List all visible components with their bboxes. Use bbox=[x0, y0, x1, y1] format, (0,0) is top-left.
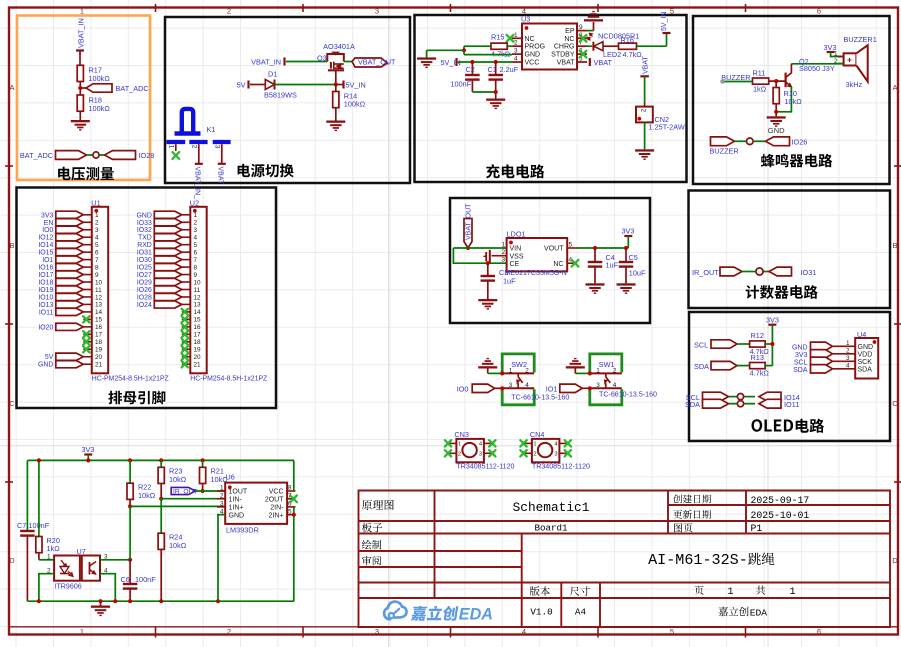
svg-text:BUZZER: BUZZER bbox=[710, 147, 739, 156]
svg-text:18: 18 bbox=[95, 339, 103, 346]
svg-text:4: 4 bbox=[525, 382, 529, 389]
svg-text:3: 3 bbox=[213, 145, 220, 149]
wire down to pin3 node bbox=[129, 506, 131, 559]
wire bbox=[79, 51, 81, 66]
svg-text:13: 13 bbox=[95, 302, 103, 309]
svg-text:SCL: SCL bbox=[694, 341, 708, 350]
svg-text:GND: GND bbox=[858, 344, 874, 351]
switch SW1 TC-6610 bbox=[590, 354, 622, 373]
svg-text:TC-6610-13.5-160: TC-6610-13.5-160 bbox=[599, 391, 657, 399]
net label 5V_IN (vertical) bbox=[663, 32, 671, 34]
wire bbox=[275, 84, 336, 86]
svg-text:3: 3 bbox=[375, 627, 379, 636]
svg-text:GND: GND bbox=[768, 126, 785, 135]
svg-text:TXD: TXD bbox=[138, 235, 152, 242]
port SCL bbox=[811, 357, 833, 365]
wire bbox=[644, 122, 646, 149]
no-connect X pin1 bbox=[507, 35, 514, 42]
svg-text:IO14: IO14 bbox=[38, 242, 53, 249]
wire R20 branch bbox=[38, 460, 40, 536]
U2 pin 7 bbox=[182, 259, 191, 261]
svg-text:9: 9 bbox=[579, 24, 583, 31]
svg-text:2: 2 bbox=[227, 627, 231, 636]
svg-text:U3: U3 bbox=[521, 15, 530, 24]
svg-text:VCC: VCC bbox=[269, 489, 284, 496]
svg-text:IO19: IO19 bbox=[38, 287, 53, 294]
svg-text:IO13: IO13 bbox=[38, 302, 53, 309]
wire 1IN+ row bbox=[130, 505, 225, 507]
ground bbox=[586, 283, 605, 285]
svg-text:GND: GND bbox=[38, 362, 53, 369]
svg-text:IO31: IO31 bbox=[801, 268, 817, 277]
svg-text:IO26: IO26 bbox=[792, 137, 808, 146]
wire top rail bbox=[27, 459, 294, 461]
title: charging circuit bbox=[486, 164, 544, 178]
wire 3V3 riser bbox=[771, 325, 773, 366]
svg-text:IO10: IO10 bbox=[38, 294, 53, 301]
svg-text:IO1: IO1 bbox=[42, 257, 53, 264]
svg-text:100kΩ: 100kΩ bbox=[344, 100, 366, 109]
node BAT_ADC junction bbox=[78, 86, 82, 90]
svg-text:2025-09-17: 2025-09-17 bbox=[751, 495, 810, 506]
wire GND pin bbox=[218, 515, 225, 602]
svg-text:1: 1 bbox=[95, 212, 99, 219]
node bbox=[588, 386, 592, 390]
svg-text:5: 5 bbox=[670, 627, 674, 636]
U1 pin 20 bbox=[83, 356, 92, 358]
svg-text:4: 4 bbox=[194, 235, 198, 242]
U2 pin 9 bbox=[182, 274, 191, 276]
port GND bbox=[811, 342, 833, 350]
ground above EP bbox=[587, 30, 594, 32]
port IO1 bbox=[56, 256, 84, 263]
svg-text:RXD: RXD bbox=[137, 242, 152, 249]
port IO19 bbox=[56, 286, 84, 293]
U2 pin 4 bbox=[182, 236, 191, 238]
svg-text:6: 6 bbox=[95, 249, 99, 256]
svg-text:16: 16 bbox=[194, 324, 202, 331]
svg-text:SDA: SDA bbox=[685, 400, 700, 409]
svg-text:C: C bbox=[892, 399, 898, 408]
svg-text:4: 4 bbox=[95, 235, 99, 242]
U1 pin 14 bbox=[83, 311, 92, 313]
svg-text:2: 2 bbox=[458, 451, 461, 457]
svg-text:C: C bbox=[9, 399, 15, 408]
node bbox=[500, 371, 504, 375]
svg-text:IO15: IO15 bbox=[38, 250, 53, 257]
node bbox=[486, 261, 490, 265]
svg-text:IO33: IO33 bbox=[137, 220, 152, 227]
svg-text:GND: GND bbox=[792, 345, 808, 352]
svg-text:SDA: SDA bbox=[793, 367, 808, 374]
svg-text:VDD: VDD bbox=[858, 351, 873, 358]
svg-text:1: 1 bbox=[846, 340, 850, 347]
U1 pin 19 bbox=[83, 348, 92, 350]
port SDA bbox=[811, 365, 833, 373]
svg-text:IO28: IO28 bbox=[139, 151, 155, 160]
no-connect X bbox=[445, 440, 451, 446]
no-connect X bbox=[182, 324, 188, 330]
svg-text:SCL: SCL bbox=[794, 360, 808, 367]
svg-text:IO20: IO20 bbox=[38, 324, 53, 331]
svg-text:VBAT_OUT: VBAT_OUT bbox=[466, 203, 473, 240]
title: counter circuit bbox=[746, 285, 818, 299]
wire left rail bbox=[26, 460, 28, 530]
port IO31 bbox=[154, 249, 182, 256]
svg-text:2: 2 bbox=[533, 451, 536, 457]
svg-text:EDA: EDA bbox=[750, 608, 768, 619]
port IO12 bbox=[56, 234, 84, 241]
port IO11 bbox=[56, 308, 84, 315]
node bbox=[159, 497, 163, 501]
ground bbox=[100, 601, 102, 605]
U1 pin 7 bbox=[83, 259, 92, 261]
title: OLED circuit bbox=[752, 419, 794, 431]
svg-text:3: 3 bbox=[194, 227, 198, 234]
svg-text:VBAT: VBAT bbox=[594, 58, 613, 67]
port IO26 bbox=[154, 286, 182, 293]
svg-text:3: 3 bbox=[375, 7, 379, 16]
svg-text:3V3: 3V3 bbox=[622, 227, 635, 236]
wire to 5V_IN riser bbox=[637, 45, 667, 47]
section box: header pins bbox=[17, 188, 277, 409]
svg-text:8: 8 bbox=[95, 264, 99, 271]
svg-text:B: B bbox=[9, 241, 14, 250]
resistor R18 bbox=[77, 95, 83, 111]
buzzer pins bbox=[839, 56, 844, 58]
svg-text:IO18: IO18 bbox=[38, 280, 53, 287]
node bbox=[588, 371, 592, 375]
svg-text:GND: GND bbox=[525, 52, 541, 59]
svg-text:VSS: VSS bbox=[510, 253, 524, 260]
wire VOUT bbox=[577, 247, 628, 249]
node bbox=[216, 599, 220, 603]
svg-text:B5819WS: B5819WS bbox=[264, 91, 297, 100]
svg-text:20: 20 bbox=[95, 354, 103, 361]
no-connect X bbox=[182, 354, 188, 360]
U2 pin 17 bbox=[182, 333, 191, 335]
svg-text:17: 17 bbox=[95, 332, 103, 339]
port 3V3 bbox=[56, 211, 84, 218]
svg-text:10kΩ: 10kΩ bbox=[138, 491, 156, 500]
svg-text:100nF: 100nF bbox=[135, 575, 156, 584]
port IO16 bbox=[56, 263, 84, 270]
wire collector to pin2 bbox=[791, 63, 843, 65]
svg-text:VBAT: VBAT bbox=[643, 56, 650, 74]
port BAT_ADC bbox=[80, 87, 86, 89]
svg-text:1: 1 bbox=[458, 441, 461, 447]
U1 pin 18 bbox=[83, 341, 92, 343]
svg-text:CN4: CN4 bbox=[530, 430, 545, 439]
svg-text:IR_OUT: IR_OUT bbox=[173, 489, 198, 496]
svg-text:VBAT: VBAT bbox=[557, 60, 575, 67]
svg-text:5: 5 bbox=[288, 508, 292, 515]
no-connect X bbox=[182, 339, 188, 345]
svg-text:4: 4 bbox=[514, 56, 518, 63]
svg-text:1: 1 bbox=[514, 32, 518, 39]
svg-text:R11: R11 bbox=[753, 69, 766, 78]
svg-text:3V3: 3V3 bbox=[41, 212, 53, 219]
svg-text:2IN-: 2IN- bbox=[270, 504, 284, 511]
svg-text:1IN-: 1IN- bbox=[229, 496, 243, 503]
no-connect X NC right bbox=[580, 35, 587, 42]
svg-text:1: 1 bbox=[789, 587, 795, 598]
svg-text:3: 3 bbox=[220, 501, 224, 508]
wire 3V3 stem bbox=[87, 455, 89, 461]
section box: buzzer bbox=[693, 16, 890, 184]
no-connect X bbox=[520, 440, 526, 446]
svg-text:IR_OUT: IR_OUT bbox=[692, 268, 719, 277]
wire VIN rail bbox=[453, 247, 506, 249]
U2 pin 1 bbox=[182, 214, 191, 216]
U2 pin 16 bbox=[182, 326, 191, 328]
U2 pin 5 bbox=[182, 244, 191, 246]
svg-text:C2: C2 bbox=[466, 65, 475, 74]
U2 pin 19 bbox=[182, 348, 191, 350]
ground bbox=[635, 149, 654, 151]
node bbox=[128, 558, 132, 562]
wire GND pin bbox=[463, 50, 465, 54]
port EN bbox=[56, 219, 84, 226]
svg-text:3: 3 bbox=[596, 382, 600, 389]
port IO0 bbox=[56, 226, 84, 233]
node junction bbox=[462, 48, 466, 52]
U1 pin 13 bbox=[83, 303, 92, 305]
svg-text:3V3: 3V3 bbox=[766, 316, 779, 325]
svg-text:10uF: 10uF bbox=[629, 269, 646, 278]
svg-text:IO32: IO32 bbox=[137, 227, 152, 234]
svg-text:3: 3 bbox=[846, 355, 850, 362]
ground bbox=[478, 366, 497, 368]
wire bbox=[79, 111, 81, 120]
svg-text:CE: CE bbox=[510, 261, 520, 268]
svg-text:1: 1 bbox=[501, 242, 505, 249]
svg-text:19: 19 bbox=[194, 347, 202, 354]
switch K1 (blue) bbox=[167, 109, 231, 142]
no-connect X 2OUT bbox=[290, 495, 297, 502]
wire emitter down bbox=[776, 87, 791, 112]
svg-text:1: 1 bbox=[80, 627, 84, 636]
svg-text:5V_IN: 5V_IN bbox=[441, 58, 461, 67]
port IO15 bbox=[56, 249, 84, 256]
ground bbox=[71, 120, 90, 122]
svg-text:SW1: SW1 bbox=[599, 360, 615, 369]
resistor R20 bbox=[36, 537, 42, 553]
resistor R23 bbox=[159, 458, 163, 462]
svg-text:100nF: 100nF bbox=[451, 80, 472, 89]
svg-text:6: 6 bbox=[817, 7, 821, 16]
net label VBAT (pin5) bbox=[589, 58, 591, 66]
svg-text:1: 1 bbox=[533, 441, 536, 447]
svg-text:HC-PM254-8.5H-1x21PZ: HC-PM254-8.5H-1x21PZ bbox=[92, 375, 169, 382]
svg-text:14: 14 bbox=[95, 309, 103, 316]
no-connect X STDBY bbox=[580, 51, 587, 58]
svg-text:S8050 J3Y: S8050 J3Y bbox=[799, 64, 835, 73]
svg-text:V1.0: V1.0 bbox=[530, 607, 552, 618]
wire bbox=[286, 61, 327, 63]
svg-text:CHRG: CHRG bbox=[554, 44, 575, 51]
svg-text:1: 1 bbox=[167, 145, 174, 149]
U4 pin 4 SDA bbox=[833, 368, 855, 370]
svg-text:U6: U6 bbox=[226, 473, 235, 482]
svg-text:12: 12 bbox=[194, 294, 202, 301]
U1 pin 9 bbox=[83, 274, 92, 276]
port IO27 bbox=[154, 271, 182, 278]
svg-text:SW2: SW2 bbox=[511, 360, 527, 369]
no-connect X bbox=[83, 346, 89, 352]
no-connect X bbox=[83, 316, 89, 322]
svg-text:D1: D1 bbox=[268, 69, 277, 78]
wire bbox=[644, 76, 646, 103]
svg-text:IO0: IO0 bbox=[42, 227, 53, 234]
svg-text:100kΩ: 100kΩ bbox=[89, 74, 111, 83]
port IR_OUT bbox=[171, 487, 195, 494]
port 5V bbox=[56, 353, 84, 360]
U2 pin 3 bbox=[182, 229, 191, 231]
svg-text:K1: K1 bbox=[207, 125, 216, 134]
svg-text:10: 10 bbox=[95, 279, 103, 286]
svg-text:D: D bbox=[892, 556, 898, 565]
no-connect X bbox=[182, 331, 188, 337]
switch lever bbox=[517, 373, 519, 377]
svg-text:15: 15 bbox=[194, 317, 202, 324]
port VBAT_OUT (vertical) bbox=[464, 219, 472, 249]
svg-text:IO16: IO16 bbox=[38, 265, 53, 272]
ground bbox=[495, 92, 497, 99]
svg-text:7: 7 bbox=[194, 257, 198, 264]
wire 3V3 to pin1 bbox=[831, 52, 839, 57]
svg-text:3V3: 3V3 bbox=[824, 43, 837, 52]
svg-text:7: 7 bbox=[95, 257, 99, 264]
port IO33 bbox=[154, 219, 182, 226]
node bbox=[774, 79, 778, 83]
svg-text:IO29: IO29 bbox=[137, 280, 152, 287]
svg-text:TR34085112-1120: TR34085112-1120 bbox=[456, 462, 514, 470]
svg-text:100kΩ: 100kΩ bbox=[89, 104, 111, 113]
svg-text:NC: NC bbox=[553, 261, 563, 268]
svg-text:IO26: IO26 bbox=[137, 287, 152, 294]
capacitor C4 bbox=[593, 246, 597, 250]
svg-text:C6: C6 bbox=[121, 575, 130, 584]
svg-text:SDA: SDA bbox=[694, 362, 709, 371]
node bbox=[201, 489, 205, 493]
no-connect X bbox=[182, 316, 188, 322]
svg-text:NC: NC bbox=[564, 36, 574, 43]
svg-text:1IN+: 1IN+ bbox=[229, 504, 244, 511]
svg-text:3V3: 3V3 bbox=[82, 445, 95, 454]
U3 right pins bbox=[577, 30, 587, 32]
port 3V3 bbox=[811, 350, 833, 358]
svg-text:IO31: IO31 bbox=[137, 250, 152, 257]
U3 left pins bbox=[512, 37, 522, 39]
wire CE loop bbox=[453, 248, 506, 263]
resistor R24 bbox=[160, 499, 162, 534]
node bbox=[500, 386, 504, 390]
svg-text:1uF: 1uF bbox=[503, 277, 516, 286]
svg-text:R12: R12 bbox=[751, 331, 764, 340]
node bbox=[86, 458, 90, 462]
node bbox=[292, 513, 296, 517]
svg-text:2: 2 bbox=[846, 348, 850, 355]
svg-text:NC: NC bbox=[525, 36, 535, 43]
node bbox=[774, 110, 778, 114]
svg-text:IO0: IO0 bbox=[457, 385, 469, 394]
U1 pin 2 bbox=[83, 221, 92, 223]
U2 pin 12 bbox=[182, 296, 191, 298]
svg-text:3: 3 bbox=[514, 48, 518, 55]
no-connect X bbox=[565, 450, 571, 456]
U2 pin 8 bbox=[182, 266, 191, 268]
svg-text:3: 3 bbox=[95, 227, 99, 234]
svg-text:IO11: IO11 bbox=[39, 309, 54, 316]
svg-text:SCK: SCK bbox=[858, 359, 873, 366]
U1 pin 17 bbox=[83, 333, 92, 335]
svg-text:10kΩ: 10kΩ bbox=[785, 97, 803, 106]
svg-text:VBAT_IN_: VBAT_IN_ bbox=[194, 167, 201, 200]
ground bbox=[426, 50, 428, 57]
svg-text:1: 1 bbox=[47, 554, 51, 561]
port IO32 bbox=[154, 226, 182, 233]
no-connect X NC bbox=[572, 260, 579, 267]
port IO18 bbox=[56, 278, 84, 285]
section box: charging bbox=[415, 15, 687, 182]
ground bbox=[566, 366, 585, 368]
U2 pin 11 bbox=[182, 289, 191, 291]
node bbox=[466, 246, 470, 250]
svg-text:10: 10 bbox=[194, 279, 202, 286]
svg-text:3: 3 bbox=[479, 451, 482, 457]
svg-text:8: 8 bbox=[288, 485, 292, 492]
svg-text:+: + bbox=[847, 55, 852, 65]
svg-text:4: 4 bbox=[613, 382, 617, 389]
svg-text:5V_IN: 5V_IN bbox=[346, 80, 366, 89]
resistor R22 bbox=[128, 458, 132, 462]
svg-text:19: 19 bbox=[95, 347, 103, 354]
svg-text:15: 15 bbox=[95, 317, 103, 324]
svg-text:BUZZER1: BUZZER1 bbox=[844, 35, 877, 44]
svg-text:IO27: IO27 bbox=[137, 272, 152, 279]
svg-text:6: 6 bbox=[817, 627, 821, 636]
svg-text:A: A bbox=[9, 83, 14, 92]
title: voltage measurement bbox=[58, 167, 114, 181]
svg-text:2025-10-01: 2025-10-01 bbox=[751, 510, 810, 521]
port VBAT_OUT bbox=[344, 61, 352, 63]
svg-text:VOUT: VOUT bbox=[544, 246, 564, 253]
svg-text:TC-6610-13.5-160: TC-6610-13.5-160 bbox=[511, 394, 569, 402]
svg-text:4.7kΩ: 4.7kΩ bbox=[623, 50, 643, 59]
svg-text:IO1: IO1 bbox=[546, 385, 558, 394]
svg-text:2: 2 bbox=[220, 493, 224, 500]
svg-text:A4: A4 bbox=[575, 607, 587, 618]
capacitor C3 bbox=[487, 263, 489, 276]
K1 pin 3 bbox=[221, 144, 223, 163]
svg-text:2: 2 bbox=[194, 220, 198, 227]
U2 pin 21 bbox=[182, 363, 191, 365]
U2 pin 10 bbox=[182, 281, 191, 283]
title block table bbox=[359, 491, 891, 628]
resistor R14 bbox=[335, 85, 337, 92]
U2 pin 13 bbox=[182, 303, 191, 305]
svg-text:EN: EN bbox=[44, 220, 54, 227]
svg-text:SDA: SDA bbox=[858, 366, 873, 373]
U1 pin 16 bbox=[83, 326, 92, 328]
svg-text:5: 5 bbox=[569, 242, 573, 249]
svg-text:14: 14 bbox=[194, 309, 202, 316]
bottom right 嘉立创EDA cell bbox=[718, 607, 748, 617]
no-connect X bbox=[489, 450, 495, 456]
page numbers 页 1 共 1 bbox=[694, 586, 703, 595]
svg-text:3kHz: 3kHz bbox=[846, 80, 863, 89]
